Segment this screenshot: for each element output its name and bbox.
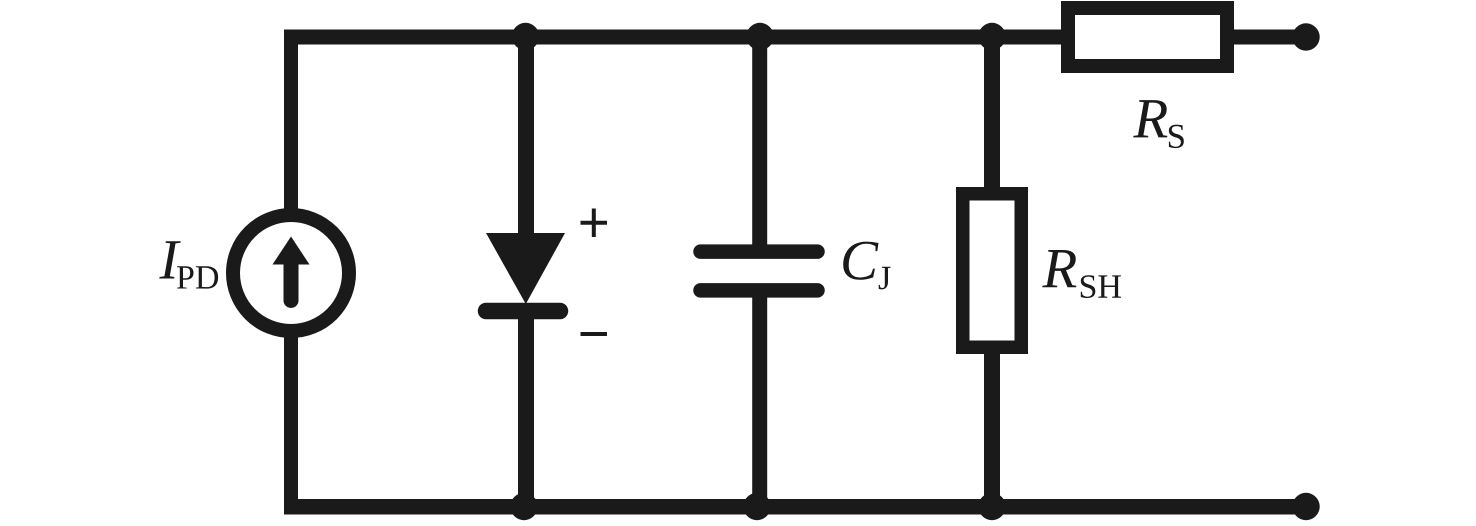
- resistor R_S (horizontal box, series output): [1068, 8, 1227, 66]
- label + (diode anode polarity): [581, 209, 608, 238]
- wire Rsh branch, top segment: [984, 30, 1000, 196]
- wire top rail (right of Rs to output terminal): [1232, 30, 1306, 45]
- wire top rail (left section, node A): [284, 30, 1062, 45]
- wire capacitor branch, bottom segment: [752, 290, 767, 514]
- wire Rsh branch, bottom segment: [984, 347, 1000, 514]
- resistor R_SH (vertical box): [963, 194, 1022, 348]
- wire diode branch, top segment: [518, 30, 534, 246]
- terminal dot (positive output, after Rs): [1292, 23, 1319, 50]
- current source I_PD (circle with up arrow): [233, 215, 349, 331]
- junction node dot (Rsh / bottom rail): [978, 493, 1005, 520]
- junction node dot (capacitor / top rail): [746, 23, 773, 50]
- label I_PD: [159, 241, 218, 288]
- capacitor C_J (two plates): [701, 252, 818, 291]
- label R_S: [1133, 100, 1184, 148]
- wire diode branch, bottom segment: [518, 311, 534, 514]
- junction node dot (capacitor / bottom rail): [743, 493, 770, 520]
- diode D1 (anode top, cathode bar below): [486, 233, 565, 311]
- wire left vertical, bottom segment: [284, 333, 298, 514]
- junction node dot (diode / top rail): [512, 23, 539, 50]
- label C_J: [843, 242, 890, 290]
- wire capacitor branch, top segment: [752, 30, 767, 253]
- label - (diode cathode polarity): [581, 332, 608, 336]
- junction node dot (diode / bottom rail): [510, 493, 537, 520]
- terminal dot (negative output, bottom right): [1292, 493, 1319, 520]
- label R_SH: [1042, 250, 1121, 298]
- wire bottom rail (node B): [284, 499, 1306, 515]
- wire left vertical, top segment: [284, 30, 298, 214]
- junction node dot (Rsh / top rail): [978, 23, 1005, 50]
